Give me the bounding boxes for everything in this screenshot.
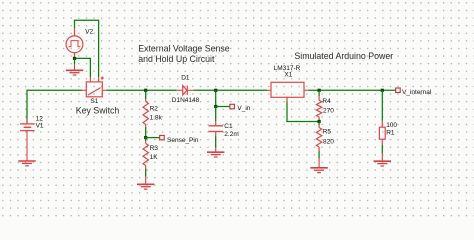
port V_internal xyxy=(396,88,401,93)
resistor R2 xyxy=(143,90,148,137)
svg-text:R1: R1 xyxy=(386,129,395,136)
svg-text:D1N4148: D1N4148 xyxy=(172,97,200,104)
node: junction bus/R2 xyxy=(144,89,147,92)
svg-text:2.2m: 2.2m xyxy=(224,131,238,138)
ground below R1 xyxy=(374,154,391,166)
ground below V1 xyxy=(18,161,35,166)
svg-text:270: 270 xyxy=(323,107,334,114)
node: junction bus/R4 xyxy=(318,89,321,92)
svg-text:R4: R4 xyxy=(322,98,331,105)
wire: stub to V_in port xyxy=(216,106,230,108)
node: junction under V2 xyxy=(73,57,76,60)
wire: V2 plus loop to switch control xyxy=(75,20,99,77)
node: junction V_in/C1 xyxy=(214,105,217,108)
wire: V2 junction to ground xyxy=(74,58,76,64)
resistor R3 xyxy=(143,138,148,177)
svg-text:X1: X1 xyxy=(284,71,292,78)
ground below V2 xyxy=(66,64,83,75)
svg-text:External Voltage Sense: External Voltage Sense xyxy=(138,44,230,54)
node: junction R2/R3/Sense_Pin xyxy=(144,136,147,139)
port V_in xyxy=(230,104,235,109)
svg-text:Key Switch: Key Switch xyxy=(76,106,120,116)
capacitor C1 xyxy=(209,107,224,148)
wire: main bus V1 riser to switch xyxy=(27,90,82,123)
svg-text:and Hold Up Circuit: and Hold Up Circuit xyxy=(138,54,215,64)
wire: bus D1 to LM317 xyxy=(193,89,267,91)
svg-text:1.8k: 1.8k xyxy=(150,114,163,121)
svg-text:V1: V1 xyxy=(36,123,44,130)
regulator U X1 LM317-R xyxy=(267,82,308,101)
svg-text:R2: R2 xyxy=(150,106,159,113)
svg-text:Simulated Arduino Power: Simulated Arduino Power xyxy=(294,51,393,61)
svg-text:D1: D1 xyxy=(181,74,190,81)
port Sense_Pin xyxy=(160,135,165,140)
ground below R5 xyxy=(310,159,327,173)
wire: ADJ pin to R4/R5 node xyxy=(287,102,319,122)
voltage source V2 xyxy=(66,28,83,58)
ground below R3 xyxy=(137,177,154,190)
node: junction R4/R5/ADJ xyxy=(318,120,321,123)
svg-text:820: 820 xyxy=(323,138,334,145)
wire: bus junction down to V_in node xyxy=(215,90,217,106)
svg-text:1K: 1K xyxy=(150,154,159,161)
svg-text:S1: S1 xyxy=(90,98,98,105)
svg-text:V_in: V_in xyxy=(237,105,250,112)
svg-text:C1: C1 xyxy=(224,123,233,130)
wire: bus switch to D1 xyxy=(107,89,177,91)
svg-text:V_internal: V_internal xyxy=(402,89,432,96)
svg-text:R3: R3 xyxy=(150,145,159,152)
diode D1 xyxy=(177,86,193,95)
resistor R5 xyxy=(316,122,321,159)
resistor R1 xyxy=(379,90,385,154)
ground below C1 xyxy=(207,148,224,157)
resistor R4 xyxy=(316,90,321,121)
battery V1 xyxy=(20,119,35,161)
node: junction bus/C1 xyxy=(214,89,217,92)
wire: bus LM317 to V_internal xyxy=(308,89,395,91)
wire: stub to Sense_Pin port xyxy=(146,137,160,139)
svg-text:Sense_Pin: Sense_Pin xyxy=(167,137,199,144)
svg-text:V2: V2 xyxy=(85,29,93,36)
svg-text:100: 100 xyxy=(386,122,397,129)
node: junction bus/R1/V_internal xyxy=(381,89,384,92)
svg-text:12: 12 xyxy=(36,116,44,123)
svg-text:R5: R5 xyxy=(323,129,332,136)
switch S1 xyxy=(82,77,106,97)
wire: V2 minus jog to switch control xyxy=(75,58,91,77)
